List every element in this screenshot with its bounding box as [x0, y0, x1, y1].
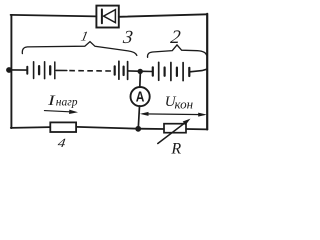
svg-text:A: A	[136, 88, 145, 105]
svg-text:нагр: нагр	[56, 96, 78, 108]
svg-text:R: R	[170, 141, 181, 158]
svg-text:I: I	[47, 91, 56, 108]
svg-text:кон: кон	[175, 97, 194, 112]
